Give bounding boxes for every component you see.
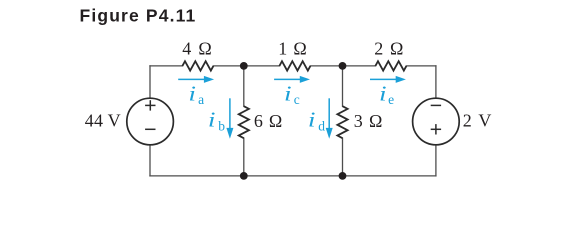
svg-text:2 V: 2 V bbox=[463, 111, 492, 131]
svg-text:i: i bbox=[379, 82, 387, 105]
svg-text:e: e bbox=[388, 92, 394, 107]
svg-text:44 V: 44 V bbox=[85, 111, 121, 131]
svg-text:Figure P4.11: Figure P4.11 bbox=[80, 6, 197, 26]
svg-text:i: i bbox=[208, 108, 216, 131]
svg-text:3 Ω: 3 Ω bbox=[354, 111, 383, 131]
svg-text:6 Ω: 6 Ω bbox=[254, 111, 282, 131]
svg-text:a: a bbox=[198, 92, 204, 107]
svg-text:d: d bbox=[318, 118, 325, 133]
svg-text:2 Ω: 2 Ω bbox=[374, 39, 403, 59]
svg-text:4 Ω: 4 Ω bbox=[182, 39, 212, 59]
svg-text:c: c bbox=[294, 92, 300, 107]
svg-text:b: b bbox=[218, 118, 225, 133]
svg-text:i: i bbox=[188, 82, 196, 105]
svg-text:1 Ω: 1 Ω bbox=[278, 39, 307, 59]
svg-text:i: i bbox=[284, 82, 292, 105]
svg-text:i: i bbox=[308, 108, 316, 131]
